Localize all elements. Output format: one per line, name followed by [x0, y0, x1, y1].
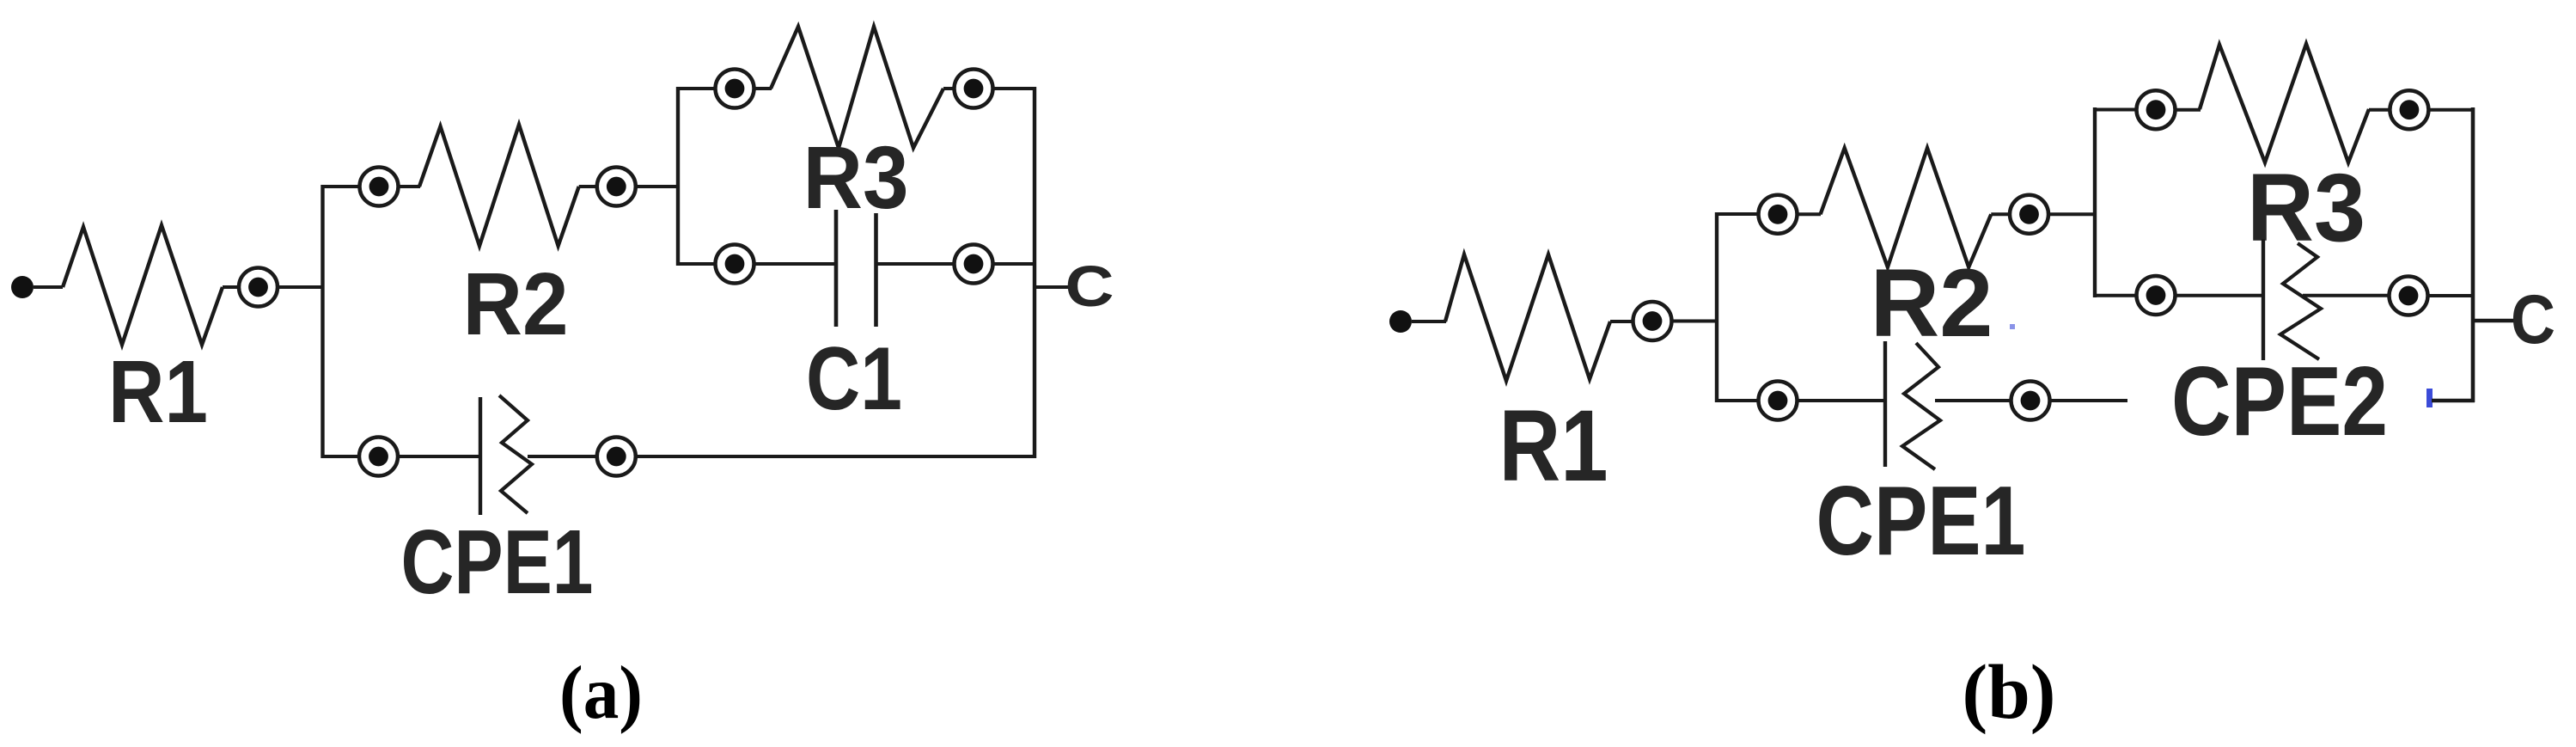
- wire: [223, 285, 240, 289]
- wire: [754, 87, 772, 90]
- wire: left rail of R3/C1 parallel block: [676, 87, 680, 266]
- wire: bottom branch to CPE1: [323, 455, 361, 458]
- wire: [1797, 212, 1821, 216]
- node (terminal) CPE1 left (b): [1759, 382, 1798, 420]
- wire: [635, 185, 680, 188]
- resistor R1 (b): [1445, 254, 1610, 381]
- wire: top branch to R3 (b): [2095, 108, 2136, 112]
- CPE1 plate: [479, 397, 482, 515]
- wire: left rail of R2/CPE1 block (b): [1715, 212, 1718, 402]
- capacitor C1 left plate: [834, 210, 839, 327]
- CPE1 plate (b): [1883, 341, 1887, 467]
- node (terminal) CPE2 left (b): [2137, 276, 2176, 315]
- wire: [2175, 108, 2201, 112]
- blue mark near R2: [2010, 324, 2015, 329]
- svg-text:CPE1: CPE1: [1816, 467, 2026, 576]
- wire: top branch to R2: [323, 185, 361, 188]
- node (terminal) CPE1 right (b): [2011, 382, 2050, 420]
- wire: output tap: [1035, 285, 1076, 289]
- node (terminal) R3 left: [716, 70, 754, 108]
- svg-text:R1: R1: [108, 342, 208, 441]
- resistor R2 (b): [1821, 148, 1992, 267]
- svg-text:R3: R3: [803, 128, 909, 227]
- svg-text:R1: R1: [1499, 389, 1608, 503]
- wire: output tap (b): [2473, 319, 2518, 323]
- wire: [397, 455, 480, 458]
- svg-text:R2: R2: [1871, 249, 1993, 357]
- node (terminal) R2 left (b): [1759, 195, 1798, 234]
- svg-text:C1: C1: [806, 329, 902, 429]
- wire: left rail of R2/CPE1 parallel block: [320, 185, 324, 458]
- wire: bottom rail stub to right rail (b): [2432, 399, 2475, 403]
- wire: [2369, 108, 2390, 112]
- wire: [2048, 212, 2097, 216]
- node (terminal) R2 right (b): [2010, 195, 2048, 234]
- resistor R3 (b): [2200, 44, 2369, 162]
- resistor R2: [419, 125, 579, 246]
- CPE2 plate (b): [2262, 239, 2265, 360]
- node (terminal) C1 right: [955, 245, 993, 284]
- wire: [943, 87, 955, 90]
- svg-text:C: C: [1065, 254, 1114, 319]
- wire: [876, 262, 955, 266]
- wire: [1991, 212, 2011, 216]
- CPE1 zigzag (b): [1902, 343, 1940, 469]
- resistor R1: [63, 225, 223, 345]
- resistor R3: [771, 27, 943, 148]
- input node dot: [1389, 310, 1412, 333]
- wire: [528, 455, 597, 458]
- svg-text:CPE2: CPE2: [2171, 347, 2388, 456]
- input node dot: [11, 276, 34, 298]
- wire: [1935, 399, 2011, 402]
- wire: [1412, 320, 1446, 323]
- wire: [2303, 294, 2390, 297]
- node (terminal) after R1: [239, 268, 278, 307]
- wire: bottom rail to right edge: [635, 455, 1036, 458]
- wire: [754, 262, 836, 266]
- node (terminal) C1 left: [716, 245, 754, 284]
- node (terminal) after R1 (b): [1633, 302, 1672, 340]
- blue mark on bottom rail: [2426, 389, 2433, 407]
- wire: bottom branch to CPE1 (b): [1717, 399, 1758, 402]
- wire: top branch to R2 (b): [1717, 212, 1758, 216]
- wire: [992, 262, 1035, 266]
- wire: [34, 285, 63, 289]
- wire: [1671, 320, 1718, 323]
- wire: [2175, 294, 2263, 297]
- wire: bottom branch to CPE2 (b): [2095, 294, 2136, 297]
- svg-text:CPE1: CPE1: [401, 511, 594, 613]
- capacitor C1 right plate: [874, 213, 878, 327]
- svg-text:(a): (a): [559, 652, 643, 735]
- wire: [398, 185, 420, 188]
- svg-text:R2: R2: [463, 254, 569, 353]
- node (terminal) CPE2 right (b): [2390, 277, 2428, 315]
- wire: [1610, 320, 1633, 323]
- wire: [1797, 399, 1885, 402]
- wire: [992, 87, 1036, 90]
- node (terminal) R2 right: [597, 168, 636, 206]
- wire: [579, 185, 597, 188]
- wire: [2427, 294, 2475, 297]
- node (terminal) R3 right (b): [2390, 90, 2428, 129]
- wire: [278, 285, 324, 289]
- svg-text:(b): (b): [1963, 650, 2056, 735]
- wire: right rail of figure (b): [2471, 107, 2475, 402]
- node (terminal) R3 left (b): [2137, 90, 2176, 129]
- CPE2 zigzag (b): [2280, 243, 2321, 359]
- CPE1 zigzag: [499, 395, 532, 513]
- wire: bottom branch to C1: [678, 262, 716, 266]
- wire: left rail of R3/CPE2 block (b): [2093, 107, 2097, 297]
- node (terminal) R3 right: [955, 70, 993, 108]
- svg-text:C: C: [2511, 281, 2555, 358]
- wire: right rail of figure (a): [1033, 87, 1036, 458]
- node (terminal) CPE1 right: [597, 438, 636, 476]
- wire: partial bottom rail (b): [2049, 399, 2127, 402]
- wire: [2428, 108, 2475, 112]
- node (terminal) R2 left: [360, 168, 399, 206]
- wire: top branch to R3: [678, 87, 716, 90]
- node (terminal) CPE1 left: [359, 438, 398, 476]
